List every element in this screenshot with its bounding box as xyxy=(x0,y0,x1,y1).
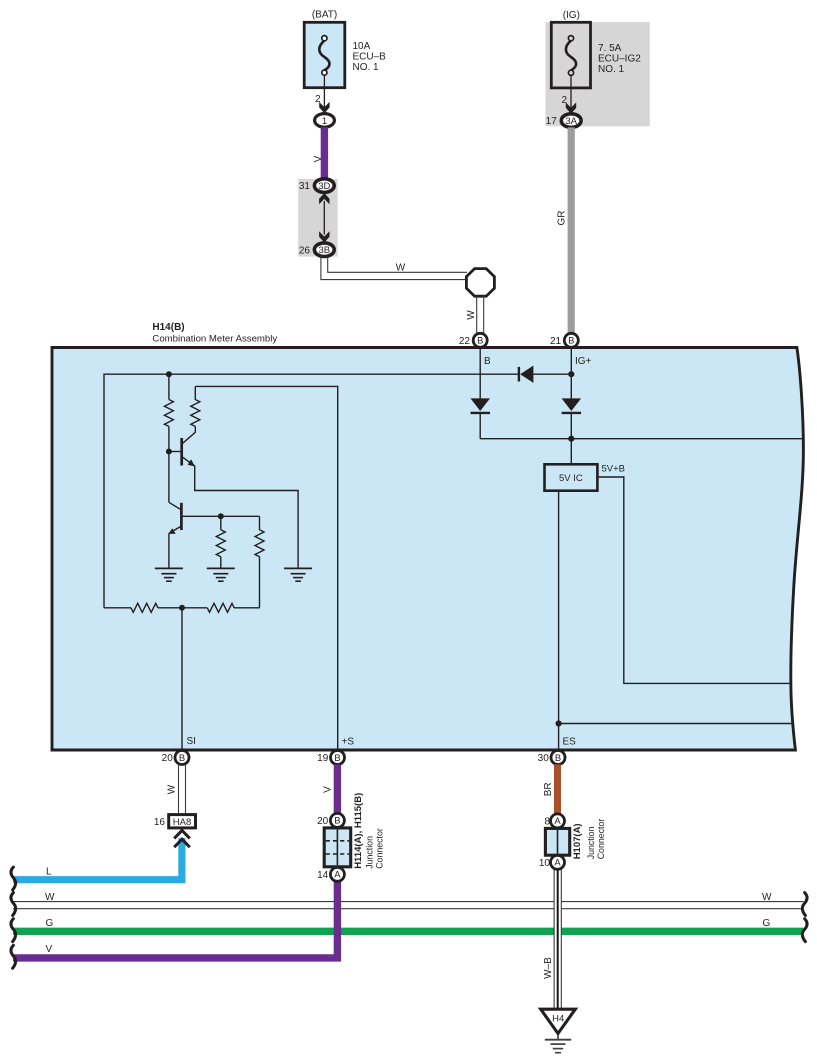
torn edge mark W (left) xyxy=(11,893,16,916)
svg-text:3D: 3D xyxy=(318,181,330,192)
wire: horizontal line to right edge xyxy=(480,438,802,440)
svg-text:W: W xyxy=(762,892,772,903)
wire: bottom line of left rect xyxy=(104,607,131,609)
diode D1 (pointing left) xyxy=(519,366,571,383)
ground (R3) xyxy=(207,568,235,581)
bus wire G (green horizontal) xyxy=(13,928,804,935)
svg-text:ECU–B: ECU–B xyxy=(353,52,387,63)
svg-text:31: 31 xyxy=(299,181,311,192)
wire xyxy=(234,607,259,609)
wire W-B (white with black stripe) xyxy=(554,870,561,1009)
wire: Q1 emitter to ground xyxy=(195,466,298,569)
svg-text:5V+B: 5V+B xyxy=(602,463,626,474)
torn edge mark L (left) xyxy=(11,867,16,890)
svg-text:V: V xyxy=(323,786,334,793)
wire W from 3B to splice (white double line) xyxy=(321,256,467,279)
diode D3 (pointing down) xyxy=(562,398,582,438)
svg-text:8: 8 xyxy=(544,817,550,828)
arrow down xyxy=(566,102,576,113)
torn edge mark V (left) xyxy=(11,945,16,968)
svg-text:H107(A): H107(A) xyxy=(572,823,583,859)
pin 22 B xyxy=(459,333,487,347)
svg-text:(BAT): (BAT) xyxy=(312,10,337,21)
wire: top horizontal line from left rect to diode D1 xyxy=(104,374,518,608)
svg-text:W: W xyxy=(396,263,406,274)
connector 3A xyxy=(561,114,581,128)
transistor Q1 xyxy=(166,426,195,466)
svg-text:1: 1 xyxy=(322,116,327,127)
svg-text:3A: 3A xyxy=(565,116,577,127)
svg-text:30: 30 xyxy=(538,753,550,764)
wire V (violet) from pin 19 to bus xyxy=(13,764,337,958)
svg-text:17: 17 xyxy=(546,116,558,127)
node ES junction dot xyxy=(556,720,562,726)
svg-text:G: G xyxy=(46,918,54,929)
svg-text:V: V xyxy=(46,944,53,955)
svg-text:21: 21 xyxy=(550,336,562,347)
chevron arrows below HA8 xyxy=(174,830,190,847)
resistor R4 xyxy=(255,516,264,608)
svg-text:H14(B): H14(B) xyxy=(152,322,184,333)
wire SI column xyxy=(181,608,183,750)
wire: Q1 base to Q2 collector xyxy=(168,452,170,503)
wire 5V+B output xyxy=(597,477,791,683)
wire ES from 5V IC xyxy=(558,491,560,750)
wire between arrows xyxy=(323,201,325,235)
svg-text:10: 10 xyxy=(539,858,551,869)
svg-text:Combination Meter Assembly: Combination Meter Assembly xyxy=(152,333,277,344)
svg-text:14: 14 xyxy=(317,870,329,881)
fuse 10A ECU-B NO.1 xyxy=(304,22,345,87)
wire from fuse to connector 1 xyxy=(323,75,325,108)
svg-text:IG+: IG+ xyxy=(575,356,592,367)
node junction dot IG+ xyxy=(568,371,574,377)
svg-text:20: 20 xyxy=(162,753,174,764)
svg-text:HA8: HA8 xyxy=(173,817,191,828)
svg-text:W: W xyxy=(166,784,177,794)
transistor Q2 xyxy=(169,502,260,534)
svg-text:L: L xyxy=(46,867,52,878)
fuse 7.5A ECU-IG2 NO. 1 xyxy=(551,22,590,88)
resistor R6 (horizontal) xyxy=(207,603,234,612)
wire V (violet) xyxy=(321,127,328,179)
svg-text:26: 26 xyxy=(299,245,311,256)
ground (Q1 emitter) xyxy=(284,568,312,581)
splice octagon xyxy=(466,269,494,297)
svg-text:G: G xyxy=(763,918,771,929)
wire ES horizontal xyxy=(559,723,793,725)
ground (Q2 emitter) xyxy=(155,568,183,581)
svg-text:B: B xyxy=(555,752,561,763)
wire: R2 top to +S column xyxy=(195,386,337,750)
arrow up xyxy=(319,193,329,204)
connector 3B xyxy=(314,243,334,257)
connector HA8 xyxy=(154,815,196,828)
junction connector H114(A), H115(B) xyxy=(317,813,351,881)
svg-text:B: B xyxy=(334,752,340,763)
value label 10A ECU-B NO. 1 xyxy=(353,41,387,73)
svg-text:Connector: Connector xyxy=(596,819,606,860)
resistor R3 xyxy=(216,516,225,568)
svg-text:H4: H4 xyxy=(552,1014,564,1025)
torn edge mark G (left) xyxy=(11,919,16,942)
ground H4 xyxy=(541,1009,576,1052)
connector 3D xyxy=(314,179,334,193)
svg-text:B: B xyxy=(477,335,483,346)
svg-text:BR: BR xyxy=(543,782,554,796)
svg-text:ECU–IG2: ECU–IG2 xyxy=(598,54,641,65)
svg-text:A: A xyxy=(334,869,341,880)
svg-text:B: B xyxy=(334,815,340,826)
pin 19 B (+S) xyxy=(317,751,344,765)
svg-text:+S: +S xyxy=(342,737,355,748)
wire BR (brown) from pin 30 xyxy=(554,764,561,814)
wire to 5V IC xyxy=(570,439,572,465)
svg-text:7. 5A: 7. 5A xyxy=(598,43,622,54)
svg-text:Junction: Junction xyxy=(586,826,596,859)
bus wire W (white horizontal) xyxy=(13,902,804,909)
junction connector H107(A) xyxy=(539,814,570,869)
torn edge mark W (right) xyxy=(802,893,807,916)
svg-text:3B: 3B xyxy=(318,245,330,256)
svg-text:B: B xyxy=(568,335,574,346)
svg-text:Connector: Connector xyxy=(374,828,384,869)
connector block 3D/3B gray background xyxy=(298,179,337,257)
combination meter assembly H14(B) title xyxy=(152,322,277,344)
svg-text:19: 19 xyxy=(317,753,329,764)
svg-text:W: W xyxy=(466,310,477,320)
svg-text:10A: 10A xyxy=(353,41,371,52)
svg-text:V: V xyxy=(313,155,324,162)
svg-text:ES: ES xyxy=(563,737,577,748)
arrow down xyxy=(319,231,329,242)
connector 1 xyxy=(315,114,335,128)
svg-text:5V IC: 5V IC xyxy=(559,473,583,484)
svg-text:(IG): (IG) xyxy=(563,10,580,21)
wire GR (gray) xyxy=(568,127,575,334)
wire from fuse to connector 3A xyxy=(570,75,572,108)
svg-text:GR: GR xyxy=(557,211,568,226)
svg-text:A: A xyxy=(554,857,561,868)
svg-text:NO. 1: NO. 1 xyxy=(598,64,625,75)
svg-text:B: B xyxy=(179,752,185,763)
pin 30 B (ES) xyxy=(538,751,565,765)
node junction dot xyxy=(568,436,574,442)
svg-text:SI: SI xyxy=(187,736,196,747)
wire W from pin 20 to HA8 xyxy=(179,764,186,815)
svg-text:W–B: W–B xyxy=(543,957,554,979)
svg-text:16: 16 xyxy=(154,817,166,828)
svg-text:20: 20 xyxy=(317,816,329,827)
diode D2 (pointing down) xyxy=(471,398,491,438)
wire: B column xyxy=(479,348,481,399)
combination meter assembly box xyxy=(52,348,803,751)
svg-text:H114(A), H115(B): H114(A), H115(B) xyxy=(353,793,364,869)
resistor R2 xyxy=(191,386,200,426)
arrow down xyxy=(319,102,329,113)
node junction dot top xyxy=(166,371,172,377)
node: Q2 base junction dot xyxy=(218,513,224,519)
wire L (light blue) xyxy=(13,838,182,880)
node SI junction dot xyxy=(179,605,185,611)
svg-text:B: B xyxy=(484,356,491,367)
value label 7.5A ECU-IG2 NO. 1 xyxy=(598,43,641,75)
svg-text:Junction: Junction xyxy=(364,836,374,869)
resistor R1 xyxy=(164,374,173,451)
wire: Q2 emitter to ground xyxy=(168,533,170,568)
IG fuse gray background block xyxy=(546,22,650,126)
5V IC U1 xyxy=(545,464,598,490)
wire xyxy=(158,607,208,609)
pin 20 B (SI) xyxy=(162,751,189,765)
torn edge mark G (right) xyxy=(802,919,807,942)
svg-text:22: 22 xyxy=(459,336,471,347)
svg-text:W: W xyxy=(45,892,55,903)
svg-text:NO. 1: NO. 1 xyxy=(353,62,380,73)
svg-text:A: A xyxy=(554,815,561,826)
pin 21 B xyxy=(550,333,578,347)
wire W from splice to pin 22 xyxy=(477,296,484,334)
resistor R5 (horizontal) xyxy=(131,603,158,612)
wire: IG+ column xyxy=(570,348,572,399)
